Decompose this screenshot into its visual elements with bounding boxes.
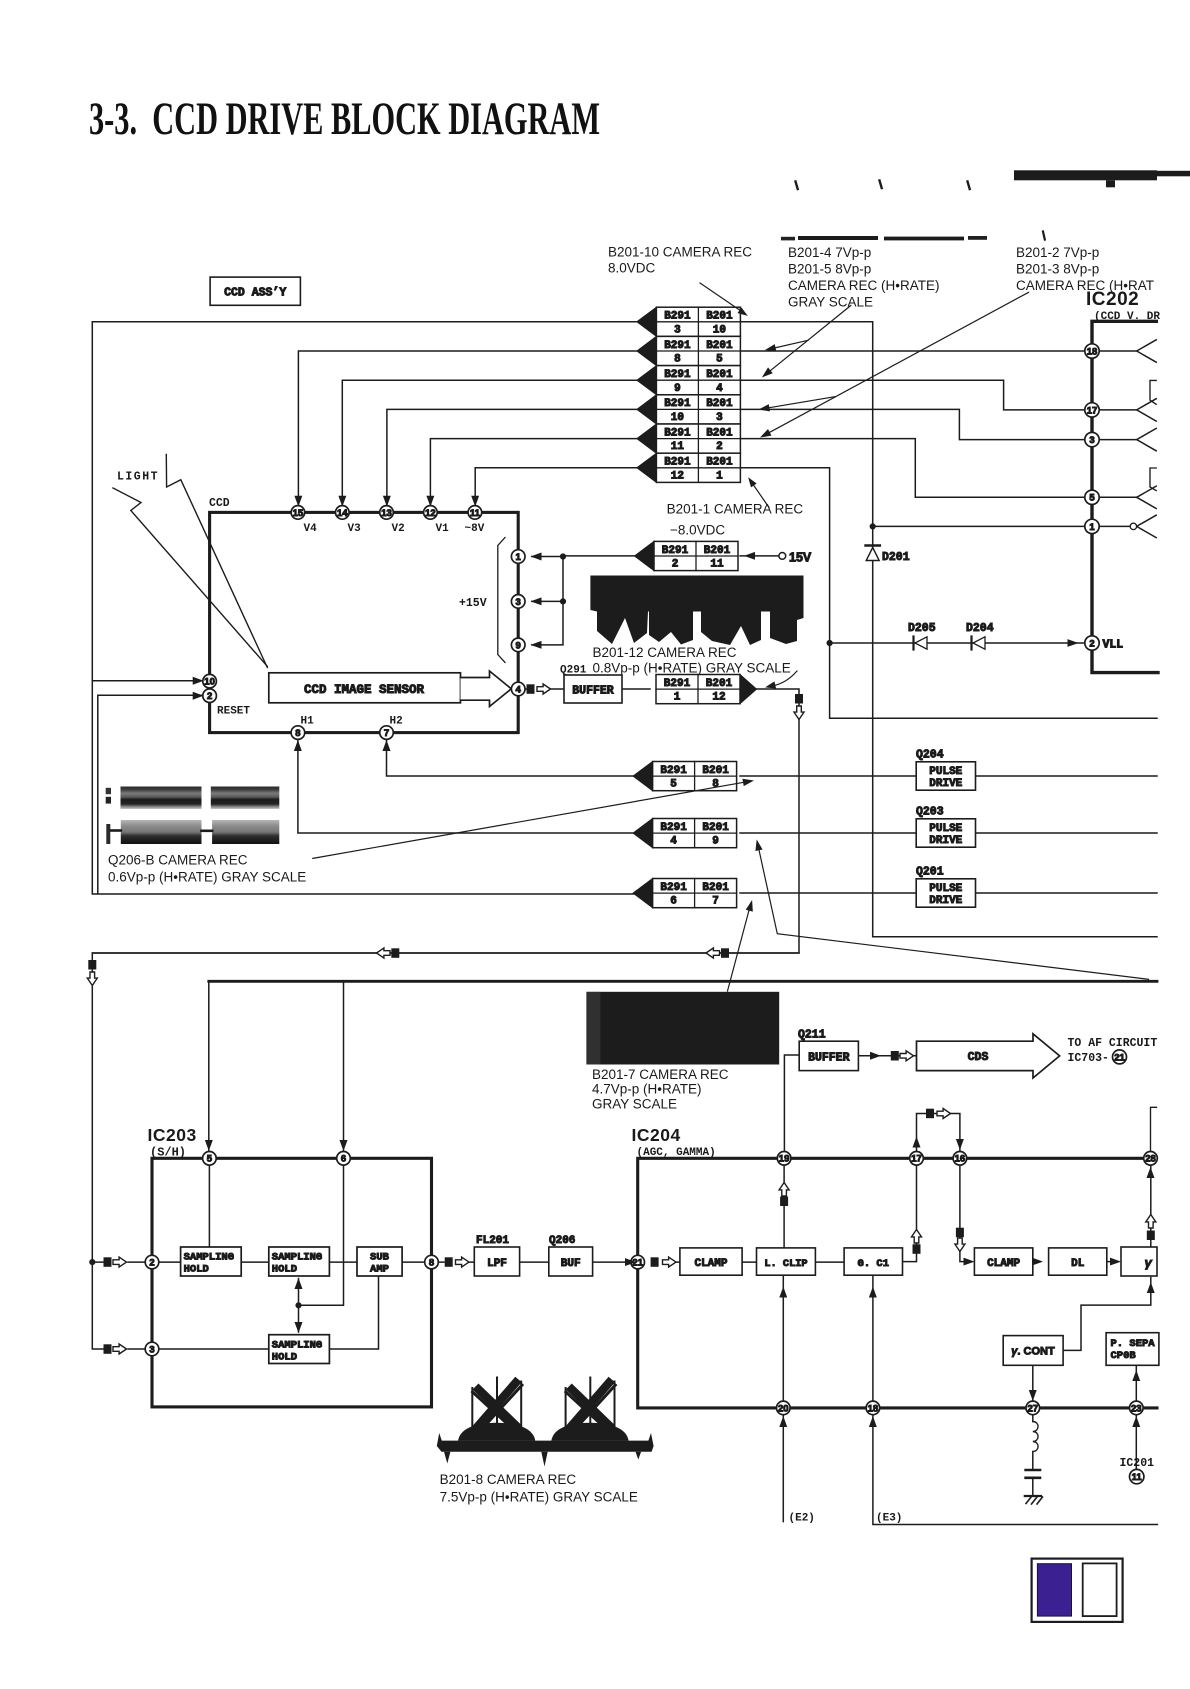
svg-text:IC204: IC204	[632, 1125, 681, 1145]
svg-text:2: 2	[672, 559, 679, 571]
svg-text:D204: D204	[966, 622, 994, 635]
svg-text:V1: V1	[436, 523, 450, 535]
svg-text:B201: B201	[706, 369, 733, 381]
svg-text:SAMPLING: SAMPLING	[184, 1252, 234, 1264]
svg-text:LPF: LPF	[487, 1258, 507, 1270]
svg-text:0.6Vp-p (H•RATE) GRAY SCALE: 0.6Vp-p (H•RATE) GRAY SCALE	[108, 870, 306, 885]
svg-text:15V: 15V	[789, 551, 812, 565]
svg-text:BUF: BUF	[561, 1258, 581, 1270]
svg-text:Q291: Q291	[560, 665, 587, 677]
svg-text:B291: B291	[660, 882, 687, 894]
svg-text:B201: B201	[702, 882, 729, 894]
svg-text:V2: V2	[392, 523, 405, 535]
svg-text:4: 4	[670, 836, 677, 848]
svg-text:HOLD: HOLD	[272, 1351, 297, 1363]
svg-text:IC703-: IC703-	[1068, 1052, 1109, 1065]
svg-text:12: 12	[712, 692, 725, 704]
svg-text:IC201: IC201	[1120, 1457, 1155, 1470]
svg-text:PULSE: PULSE	[929, 883, 962, 895]
svg-text:2: 2	[1089, 638, 1094, 649]
svg-text:28: 28	[1145, 1154, 1156, 1165]
svg-text:+15V: +15V	[459, 597, 487, 610]
svg-text:4.7Vp-p (H•RATE): 4.7Vp-p (H•RATE)	[592, 1082, 702, 1097]
svg-text:SUB: SUB	[370, 1252, 390, 1264]
svg-text:CCD: CCD	[209, 497, 230, 510]
svg-text:P. SEPA: P. SEPA	[1111, 1338, 1156, 1350]
svg-text:(E2): (E2)	[789, 1513, 815, 1525]
svg-text:B201-2 7Vp-p: B201-2 7Vp-p	[1016, 245, 1099, 260]
svg-text:CCD ASS’Y: CCD ASS’Y	[224, 287, 286, 300]
svg-text:SAMPLING: SAMPLING	[272, 1252, 322, 1264]
svg-text:9: 9	[516, 640, 521, 651]
svg-text:B291: B291	[664, 678, 691, 690]
svg-text:9: 9	[712, 836, 719, 848]
svg-text:5: 5	[716, 354, 723, 366]
svg-text:4: 4	[516, 684, 522, 695]
svg-text:B201-7 CAMERA REC: B201-7 CAMERA REC	[592, 1067, 729, 1082]
svg-text:FL201: FL201	[476, 1235, 509, 1247]
svg-text:Q211: Q211	[798, 1029, 826, 1042]
svg-text:VLL: VLL	[1103, 639, 1124, 652]
svg-text:18: 18	[1087, 346, 1098, 357]
svg-text:Q203: Q203	[916, 805, 944, 818]
svg-text:12: 12	[425, 508, 436, 519]
svg-text:H2: H2	[390, 716, 403, 728]
svg-text:3-3. CCD DRIVE BLOCK DIAGRAM: 3-3. CCD DRIVE BLOCK DIAGRAM	[89, 93, 600, 145]
svg-text:H1: H1	[301, 716, 315, 728]
svg-text:3: 3	[674, 324, 681, 336]
svg-text:Q206-B CAMERA REC: Q206-B CAMERA REC	[108, 853, 248, 868]
svg-text:B291: B291	[664, 340, 691, 352]
svg-text:20: 20	[778, 1403, 789, 1414]
svg-text:(CCD V. DR: (CCD V. DR	[1094, 311, 1160, 323]
svg-text:B201: B201	[702, 765, 729, 777]
svg-text:CLAMP: CLAMP	[694, 1258, 727, 1270]
svg-text:11: 11	[710, 559, 724, 571]
svg-text:6: 6	[670, 896, 677, 908]
svg-text:5: 5	[1089, 493, 1095, 504]
svg-text:CDS: CDS	[968, 1051, 989, 1064]
svg-text:~8V: ~8V	[465, 523, 485, 535]
svg-text:14: 14	[337, 508, 348, 519]
svg-text:6: 6	[341, 1154, 346, 1165]
svg-text:11: 11	[671, 441, 685, 453]
svg-text:7: 7	[384, 728, 389, 739]
svg-text:B201: B201	[706, 457, 733, 469]
svg-text:B291: B291	[664, 398, 691, 410]
svg-text:10: 10	[713, 324, 726, 336]
svg-text:B201: B201	[706, 398, 733, 410]
svg-text:B291: B291	[660, 765, 687, 777]
svg-text:1: 1	[1089, 522, 1095, 533]
svg-text:GRAY SCALE: GRAY SCALE	[592, 1097, 677, 1112]
svg-text:(S/H): (S/H)	[150, 1146, 186, 1160]
svg-text:GRAY SCALE: GRAY SCALE	[788, 295, 873, 310]
svg-text:DRIVE: DRIVE	[929, 895, 962, 907]
svg-text:(AGC, GAMMA): (AGC, GAMMA)	[637, 1147, 716, 1159]
svg-text:3: 3	[716, 412, 723, 424]
svg-text:8: 8	[712, 779, 719, 791]
svg-text:3: 3	[516, 597, 521, 608]
svg-text:2: 2	[149, 1258, 154, 1269]
svg-text:18: 18	[868, 1403, 879, 1414]
svg-text:IC203: IC203	[148, 1125, 197, 1145]
svg-text:B291: B291	[660, 822, 687, 834]
svg-text:B201: B201	[704, 545, 731, 557]
svg-text:HOLD: HOLD	[184, 1264, 209, 1276]
svg-text:Q201: Q201	[916, 865, 944, 878]
svg-text:D201: D201	[882, 551, 910, 564]
svg-text:PULSE: PULSE	[929, 766, 962, 778]
svg-text:DRIVE: DRIVE	[929, 835, 962, 847]
svg-text:11: 11	[470, 508, 481, 519]
svg-text:DL: DL	[1071, 1258, 1085, 1270]
svg-text:2: 2	[207, 691, 212, 702]
svg-text:0.8Vp-p (H•RATE) GRAY SCALE: 0.8Vp-p (H•RATE) GRAY SCALE	[593, 661, 791, 676]
svg-text:8.0VDC: 8.0VDC	[608, 261, 656, 276]
svg-text:1: 1	[716, 470, 723, 482]
svg-text:B201: B201	[706, 311, 733, 323]
svg-text:B291: B291	[664, 369, 691, 381]
svg-text:7.5Vp-p (H•RATE) GRAY SCALE: 7.5Vp-p (H•RATE) GRAY SCALE	[440, 1490, 638, 1505]
svg-text:IC202: IC202	[1086, 289, 1139, 310]
svg-text:1: 1	[516, 552, 522, 563]
svg-text:(E3): (E3)	[876, 1513, 902, 1525]
svg-text:2: 2	[716, 441, 723, 453]
svg-text:15: 15	[293, 508, 304, 519]
svg-text:17: 17	[1087, 405, 1098, 416]
svg-text:B291: B291	[662, 545, 689, 557]
svg-text:5: 5	[207, 1154, 213, 1165]
svg-text:7: 7	[712, 896, 719, 908]
svg-text:B201-3 8Vp-p: B201-3 8Vp-p	[1016, 262, 1099, 277]
svg-text:23: 23	[1131, 1403, 1142, 1414]
svg-text:B201: B201	[706, 427, 733, 439]
svg-text:B201-10 CAMERA REC: B201-10 CAMERA REC	[608, 245, 752, 260]
svg-text:B291: B291	[664, 427, 691, 439]
svg-text:3: 3	[149, 1344, 154, 1355]
svg-text:L. CLIP: L. CLIP	[764, 1258, 807, 1270]
svg-text:Q204: Q204	[916, 748, 944, 761]
svg-text:9: 9	[674, 383, 681, 395]
svg-text:G. C1: G. C1	[858, 1258, 890, 1270]
svg-text:TO AF CIRCUIT: TO AF CIRCUIT	[1068, 1037, 1158, 1050]
svg-text:8: 8	[674, 354, 681, 366]
svg-text:B201: B201	[702, 822, 729, 834]
svg-text:17: 17	[911, 1154, 922, 1165]
svg-text:B201-12 CAMERA REC: B201-12 CAMERA REC	[593, 645, 737, 660]
svg-text:HOLD: HOLD	[272, 1264, 297, 1276]
svg-text:γ: γ	[1145, 1255, 1153, 1270]
svg-text:RESET: RESET	[217, 706, 250, 718]
svg-text:4: 4	[716, 383, 723, 395]
svg-text:12: 12	[671, 470, 684, 482]
svg-text:Q206: Q206	[549, 1235, 575, 1247]
svg-text:13: 13	[381, 508, 392, 519]
svg-text:−8.0VDC: −8.0VDC	[670, 523, 725, 538]
svg-text:21: 21	[632, 1258, 643, 1269]
svg-text:11: 11	[1132, 1472, 1143, 1483]
svg-text:DRIVE: DRIVE	[929, 778, 962, 790]
svg-text:3: 3	[1089, 435, 1094, 446]
svg-text:V3: V3	[348, 523, 362, 535]
svg-text:CLAMP: CLAMP	[987, 1258, 1020, 1270]
svg-text:CAMERA REC (H•RATE): CAMERA REC (H•RATE)	[788, 278, 940, 293]
svg-text:27: 27	[1028, 1403, 1039, 1414]
svg-text:B201-5 8Vp-p: B201-5 8Vp-p	[788, 262, 871, 277]
svg-text:AMP: AMP	[370, 1264, 389, 1276]
svg-text:21: 21	[1114, 1052, 1125, 1063]
svg-text:B201-1 CAMERA REC: B201-1 CAMERA REC	[667, 502, 804, 517]
svg-text:8: 8	[295, 728, 300, 739]
svg-text:B291: B291	[664, 311, 691, 323]
svg-text:16: 16	[955, 1154, 966, 1165]
svg-text:SAMPLING: SAMPLING	[272, 1339, 322, 1351]
svg-text:10: 10	[671, 412, 684, 424]
svg-text:B291: B291	[664, 457, 691, 469]
svg-text:10: 10	[204, 677, 215, 688]
svg-text:γ. CONT: γ. CONT	[1011, 1346, 1055, 1358]
svg-text:BUFFER: BUFFER	[572, 684, 614, 697]
svg-text:B201-4 7Vp-p: B201-4 7Vp-p	[788, 245, 871, 260]
svg-text:LIGHT: LIGHT	[117, 471, 159, 484]
svg-text:V4: V4	[304, 523, 318, 535]
svg-text:BUFFER: BUFFER	[808, 1051, 850, 1064]
svg-text:PULSE: PULSE	[929, 823, 962, 835]
svg-text:CP0B: CP0B	[1111, 1350, 1137, 1362]
svg-text:B201-8 CAMERA REC: B201-8 CAMERA REC	[440, 1472, 577, 1487]
svg-text:19: 19	[779, 1154, 790, 1165]
svg-text:CCD IMAGE SENSOR: CCD IMAGE SENSOR	[304, 683, 425, 697]
svg-text:8: 8	[429, 1258, 434, 1269]
svg-text:D205: D205	[908, 622, 936, 635]
svg-text:1: 1	[674, 692, 681, 704]
svg-text:B201: B201	[706, 340, 733, 352]
svg-text:5: 5	[670, 779, 677, 791]
svg-text:B201: B201	[706, 678, 733, 690]
